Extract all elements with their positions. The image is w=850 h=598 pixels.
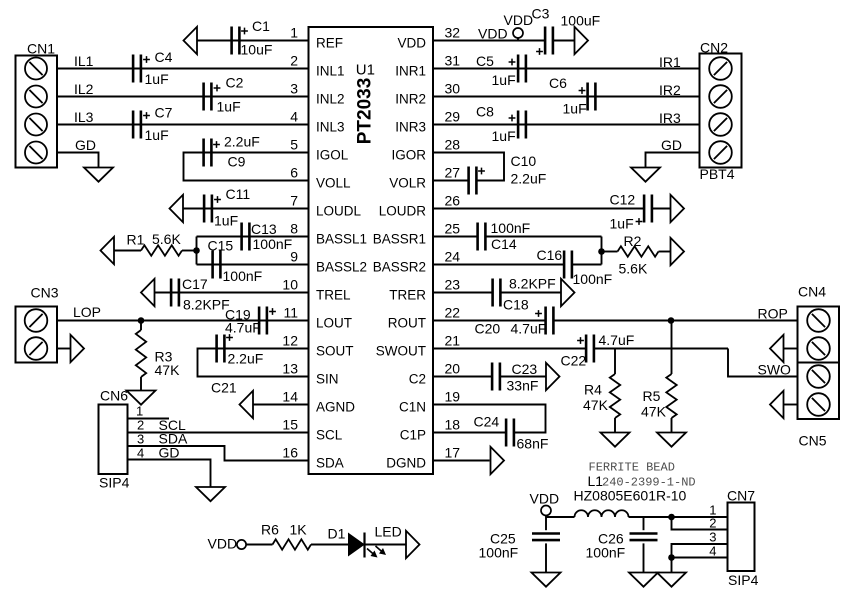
svg-text:C16: C16 [537,247,563,263]
svg-text:C3: C3 [532,6,550,22]
wire L1 to CN7 [629,516,728,518]
capacitor C7 1uF [133,105,173,144]
svg-text:R5: R5 [643,388,661,404]
connector CN3 [16,285,59,363]
svg-text:17: 17 [445,445,461,461]
svg-text:1K: 1K [290,522,308,538]
svg-text:R1: R1 [127,232,145,248]
svg-text:C1N: C1N [399,400,426,415]
svg-text:INL3: INL3 [316,120,345,135]
svg-text:IR3: IR3 [659,110,681,126]
wire pin 1 REF [197,40,309,42]
connector CN2 PBT4 [700,40,742,183]
svg-text:3: 3 [137,432,144,447]
capacitor C15 100nF [208,238,263,285]
svg-text:22: 22 [445,305,461,321]
wire D1 to arrow [365,544,406,546]
svg-text:2.2uF: 2.2uF [228,351,264,367]
svg-text:31: 31 [445,53,461,69]
terminal VDD LED row [208,536,247,552]
wire CN7 pin4 [672,544,728,573]
svg-text:GD: GD [159,445,180,461]
wire pin 29 IR3 [433,110,700,126]
svg-text:IL2: IL2 [74,81,94,97]
svg-text:29: 29 [445,109,461,125]
off-page arrow C18 [561,279,575,306]
svg-text:47K: 47K [583,397,609,413]
svg-text:3: 3 [709,530,716,545]
wire CN7 pin2 [672,516,728,531]
svg-text:1uF: 1uF [214,213,238,229]
off-page arrow pin14 [240,391,254,418]
svg-text:100nF: 100nF [253,236,293,252]
svg-text:TREL: TREL [316,288,351,303]
svg-text:5.6K: 5.6K [152,231,181,247]
off-page arrow C23 [546,363,560,390]
wire CN6 pin2 SCL [128,417,309,433]
off-page arrow pin1 [184,27,198,54]
wire R6 to D1 [311,544,349,546]
svg-text:C1P: C1P [400,428,426,443]
svg-text:13: 13 [282,361,298,377]
connector CN7 SIP4 [727,488,759,589]
capacitor C11 1uF [204,186,250,229]
svg-text:PT2033: PT2033 [355,78,376,145]
ground CN1 GD [84,168,113,182]
svg-text:C8: C8 [476,104,494,120]
capacitor C21 2.2uF [211,334,263,395]
svg-text:CN6: CN6 [100,388,128,404]
svg-text:INL2: INL2 [316,92,345,107]
wire GD CN2 [646,137,700,168]
inductor L1 coil [575,510,629,517]
wire CN3 pin2 [57,348,70,350]
connector CN5 [798,363,840,449]
svg-text:C10: C10 [511,153,537,169]
capacitor C9 2.2uF [204,134,260,170]
svg-text:100nF: 100nF [491,220,531,236]
svg-text:C5: C5 [476,53,494,69]
off-page arrow R2 [671,238,685,265]
svg-text:TRER: TRER [389,288,426,303]
svg-text:BASSL1: BASSL1 [316,232,367,247]
svg-text:8: 8 [290,221,298,237]
svg-text:INR1: INR1 [395,64,426,79]
svg-text:3: 3 [290,81,298,97]
svg-text:100nF: 100nF [586,545,626,561]
wire SOUT/SIN loop [198,349,309,377]
svg-text:CN2: CN2 [700,40,728,56]
wire VDD to L1 [546,516,575,518]
svg-text:4.7uF: 4.7uF [511,321,547,337]
svg-text:CN4: CN4 [798,284,826,300]
svg-text:HZ0805E601R-10: HZ0805E601R-10 [574,488,687,504]
svg-text:LOUDR: LOUDR [379,204,427,219]
svg-text:C2: C2 [409,372,426,387]
svg-text:1: 1 [709,503,716,518]
svg-text:4.7uF: 4.7uF [225,320,261,336]
svg-text:1: 1 [290,25,298,41]
wire pin 22 ROUT [433,306,798,322]
svg-text:VOLR: VOLR [389,176,426,191]
wire pin 26 LOUDR [433,208,670,210]
capacitor C6 1uF [549,75,595,117]
resistor R2 5.6K [618,233,659,277]
svg-text:10: 10 [282,277,298,293]
diode D1 LED [328,524,402,558]
wire pin 9 BASSL2 [197,264,309,266]
svg-text:27: 27 [445,165,461,181]
node junction LOP/R3 [138,317,145,324]
svg-text:BASSL2: BASSL2 [316,260,367,275]
svg-text:R4: R4 [584,382,602,398]
IC U1 pin name labels [316,36,426,471]
wire IL1 pin 2 [57,53,309,69]
svg-text:SDA: SDA [316,456,344,471]
wire CN5 pin2 [784,404,798,406]
ground CN6 [196,487,225,501]
svg-text:SCL: SCL [316,428,343,443]
svg-text:LOP: LOP [73,304,101,320]
svg-text:19: 19 [445,389,461,405]
svg-text:R6: R6 [261,522,279,538]
svg-text:C23: C23 [512,361,538,377]
off-page arrow pin7 [170,195,184,222]
wire pin 20 C2 [433,376,546,378]
svg-text:IGOL: IGOL [316,148,349,163]
capacitor C24 68nF [474,414,549,452]
svg-text:AGND: AGND [316,400,355,415]
svg-text:ROUT: ROUT [388,316,426,331]
svg-text:7: 7 [290,193,298,209]
wire pin 10 TREL [155,292,309,294]
off-page arrow CN3 pin2 [71,335,85,362]
svg-text:IGOR: IGOR [391,148,426,163]
resistor R5 47K [641,321,677,433]
svg-text:47K: 47K [155,362,181,378]
svg-text:1uF: 1uF [492,128,516,144]
capacitor C4 1uF [133,49,173,87]
wire VDD to R6 [246,544,272,546]
wire pin 19 C1N [433,405,546,433]
off-page arrow C12 [671,195,685,222]
off-page arrow CN5 pin2 [770,391,784,418]
off-page arrow CN4 pin2 [770,335,784,362]
svg-text:16: 16 [282,445,298,461]
wire CN6 pin1 [128,404,170,419]
svg-text:C6: C6 [549,75,567,91]
ground R4 [601,433,630,447]
svg-text:C4: C4 [155,49,173,65]
capacitor C18 8.2KPF [493,276,556,313]
ground R5 [657,433,686,447]
off-page arrow pin10 [141,279,155,306]
svg-text:100nF: 100nF [223,268,263,284]
svg-text:INL1: INL1 [316,64,345,79]
svg-text:SOUT: SOUT [316,344,354,359]
capacitor C26 100nF [586,517,658,573]
capacitor C22 4.7uF [561,332,635,369]
wire pin 23 TRER [433,292,561,294]
IC U1 pin numbers 1-16 and 32-17 [282,25,460,461]
svg-text:C21: C21 [211,380,237,396]
svg-text:100nF: 100nF [573,271,613,287]
wire IGOR/VOLR loop [433,153,504,181]
svg-text:U1: U1 [356,62,375,79]
svg-text:LOUT: LOUT [316,316,352,331]
svg-text:1uF: 1uF [145,127,169,143]
svg-text:VDD: VDD [397,36,426,51]
svg-text:C13: C13 [251,221,277,237]
svg-text:30: 30 [445,81,461,97]
svg-text:CN7: CN7 [727,488,755,504]
wire R2 row [602,251,671,253]
svg-text:14: 14 [282,389,298,405]
svg-text:6: 6 [290,165,298,181]
resistor R6 1K [261,522,311,550]
svg-text:21: 21 [445,333,461,349]
svg-text:GD: GD [661,137,682,153]
wire pin 25 BASSR1 [433,237,602,265]
node junction R2 [598,248,605,255]
off-page arrow R1 [101,237,115,264]
wire IL2 pin 3 [57,81,309,97]
svg-text:C18: C18 [503,297,529,313]
svg-text:SWOUT: SWOUT [376,344,426,359]
svg-text:CN5: CN5 [799,433,827,449]
svg-text:15: 15 [282,417,298,433]
resistor R1 5.6K [127,231,182,256]
wire CN7 pin3 [672,530,728,558]
svg-text:1uF: 1uF [610,216,634,232]
wire IGOL/VOLL loop [184,153,309,181]
resistor R4 47K [583,349,620,433]
IC pin stubs [0,0,1,1]
svg-text:5: 5 [290,137,298,153]
capacitor C5 1uF [476,53,526,88]
svg-text:PBT4: PBT4 [700,166,735,182]
svg-text:C14: C14 [491,236,517,252]
capacitor C13 100nF [242,221,293,252]
svg-text:C9: C9 [228,154,246,170]
capacitor C14 100nF [478,220,531,252]
wire IL3 pin 4 [57,109,309,125]
connector CN4 [798,284,840,363]
svg-text:24: 24 [445,249,461,265]
svg-text:VOLL: VOLL [316,176,351,191]
svg-text:IR1: IR1 [659,54,681,70]
svg-text:2.2uF: 2.2uF [224,134,260,150]
svg-text:32: 32 [445,25,461,41]
svg-text:INR2: INR2 [395,92,426,107]
svg-text:BASSR1: BASSR1 [373,232,426,247]
svg-text:VDD: VDD [504,12,534,28]
capacitor C16 100nF [537,247,613,287]
svg-text:SIN: SIN [316,372,339,387]
capacitor C25 100nF [479,517,561,573]
off-page arrow LED [406,531,420,558]
wire pin 14 AGND [253,404,309,406]
svg-text:IR2: IR2 [659,82,681,98]
svg-text:C15: C15 [208,238,234,254]
svg-text:33nF: 33nF [507,378,539,394]
svg-text:C20: C20 [475,321,501,337]
svg-text:D1: D1 [328,526,346,542]
svg-text:2: 2 [137,418,144,433]
svg-text:1: 1 [136,404,143,419]
svg-text:INR3: INR3 [395,120,426,135]
svg-text:CN1: CN1 [27,41,55,57]
ground CN7 [657,573,686,587]
inductor L1 labels [574,473,696,504]
svg-text:2.2uF: 2.2uF [511,171,547,187]
capacitor C3 100uF [532,6,601,55]
svg-text:100uF: 100uF [561,13,601,29]
ground R3 [127,391,156,405]
ground C26 [629,573,658,587]
label FERRITE BEAD [589,461,675,475]
svg-text:23: 23 [445,277,461,293]
capacitor C12 1uF [610,192,652,232]
wire CN6 pin3 SDA [128,431,309,461]
wire GD CN1 [57,137,99,168]
capacitor C23 33nF [492,361,538,394]
svg-text:4: 4 [709,544,716,559]
svg-text:C17: C17 [182,276,208,292]
capacitor C8 1uF [476,104,526,145]
wire LOP pin 11 [57,304,309,321]
wire pin 7 LOUDL [183,208,309,210]
svg-text:GD: GD [75,137,96,153]
svg-text:11: 11 [283,305,298,321]
svg-text:IL1: IL1 [74,53,94,69]
svg-text:SIP4: SIP4 [99,475,130,491]
svg-text:68nF: 68nF [517,436,549,452]
svg-text:REF: REF [316,36,343,51]
ground C25 [532,573,561,587]
svg-text:28: 28 [445,137,461,153]
wire R1 row [114,250,197,252]
svg-text:1uF: 1uF [492,72,516,88]
svg-text:2: 2 [290,53,298,69]
svg-text:20: 20 [445,361,461,377]
svg-text:8.2KPF: 8.2KPF [183,297,230,313]
svg-text:VDD: VDD [208,536,238,552]
wire pin 21 SWOUT [433,349,798,378]
terminal VDD ferrite [530,491,560,518]
svg-text:LED: LED [375,524,402,540]
wire pin 8 BASSL1 [197,237,309,265]
node junction CN7 pin1 [668,514,675,521]
off-page arrow 100uF [575,27,589,54]
terminal VDD top [504,12,534,41]
svg-text:LOUDL: LOUDL [316,204,362,219]
node junction CN7 pin4 [668,554,675,561]
svg-text:VDD: VDD [530,491,560,507]
node junction R1/C13/C15 [193,247,200,254]
op-amp U1 PT2033 IC body [309,27,434,474]
capacitor C20 4.7uF [475,307,554,337]
svg-text:R2: R2 [624,233,642,249]
connector CN6 SIP4 [99,388,130,491]
svg-text:C11: C11 [226,186,251,202]
svg-text:SWO: SWO [758,362,792,378]
wire pin 30 IR2 [433,82,700,98]
svg-text:C2: C2 [226,75,244,91]
svg-text:C24: C24 [474,414,500,430]
svg-text:ROP: ROP [758,306,788,322]
svg-text:8.2KPF: 8.2KPF [509,276,556,292]
svg-text:C22: C22 [561,353,587,369]
off-page arrow DGND [491,447,505,474]
svg-text:4.7uF: 4.7uF [599,332,635,348]
svg-text:C7: C7 [155,105,173,121]
wire pin 24 BASSR2 [433,264,602,266]
resistor R3 47K [136,321,180,391]
node junction ROP/R5 [668,317,675,324]
label CN7 pin1 [709,503,716,518]
capacitor C17 8.2KPF [171,276,230,313]
wire pin 31 IR1 [433,54,700,70]
wire CN4 pin2 [784,348,798,350]
wire pin 17 DGND [433,460,490,462]
capacitor C19 4.7uF [225,307,276,336]
svg-text:C12: C12 [610,192,636,208]
svg-text:18: 18 [445,417,461,433]
svg-text:DGND: DGND [386,456,426,471]
wire pin 32 VDD [433,26,545,42]
svg-text:BASSR2: BASSR2 [373,260,426,275]
svg-text:10uF: 10uF [241,42,273,58]
svg-text:100nF: 100nF [479,545,519,561]
svg-text:IL3: IL3 [74,109,94,125]
svg-text:4: 4 [137,446,144,461]
wire C3 to arrow [553,40,574,42]
svg-text:SIP4: SIP4 [728,572,759,588]
svg-text:4: 4 [290,109,298,125]
wire CN6 pin4 GD [128,445,211,488]
svg-text:1uF: 1uF [145,71,169,87]
svg-text:CN3: CN3 [31,285,59,301]
svg-text:1uF: 1uF [563,101,587,117]
svg-text:47K: 47K [641,404,667,420]
capacitor C2 1uF [204,75,244,115]
ground CN2 GD [631,168,660,182]
svg-text:1uF: 1uF [217,99,241,115]
connector CN1 PBT4 [16,41,58,168]
capacitor C10 2.2uF [469,153,547,195]
svg-text:2: 2 [709,516,716,531]
svg-text:C1: C1 [252,18,270,34]
svg-text:25: 25 [445,221,461,237]
svg-text:26: 26 [445,193,461,209]
capacitor C1 10uF [232,18,273,58]
svg-text:5.6K: 5.6K [619,261,648,277]
svg-text:12: 12 [282,333,298,349]
